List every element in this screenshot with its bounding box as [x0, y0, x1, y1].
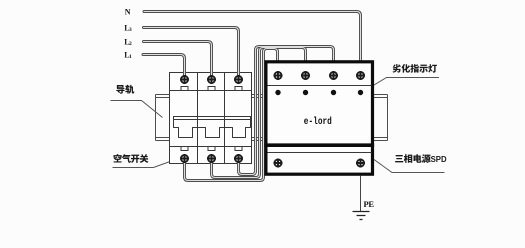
- svg-text:2: 2: [129, 41, 132, 47]
- svg-text:e-lord: e-lord: [304, 116, 332, 127]
- svg-text:N: N: [125, 7, 131, 16]
- svg-text:SPD: SPD: [431, 155, 447, 164]
- svg-text:3: 3: [129, 27, 132, 33]
- svg-text:1: 1: [129, 54, 132, 60]
- svg-text:PE: PE: [364, 199, 375, 209]
